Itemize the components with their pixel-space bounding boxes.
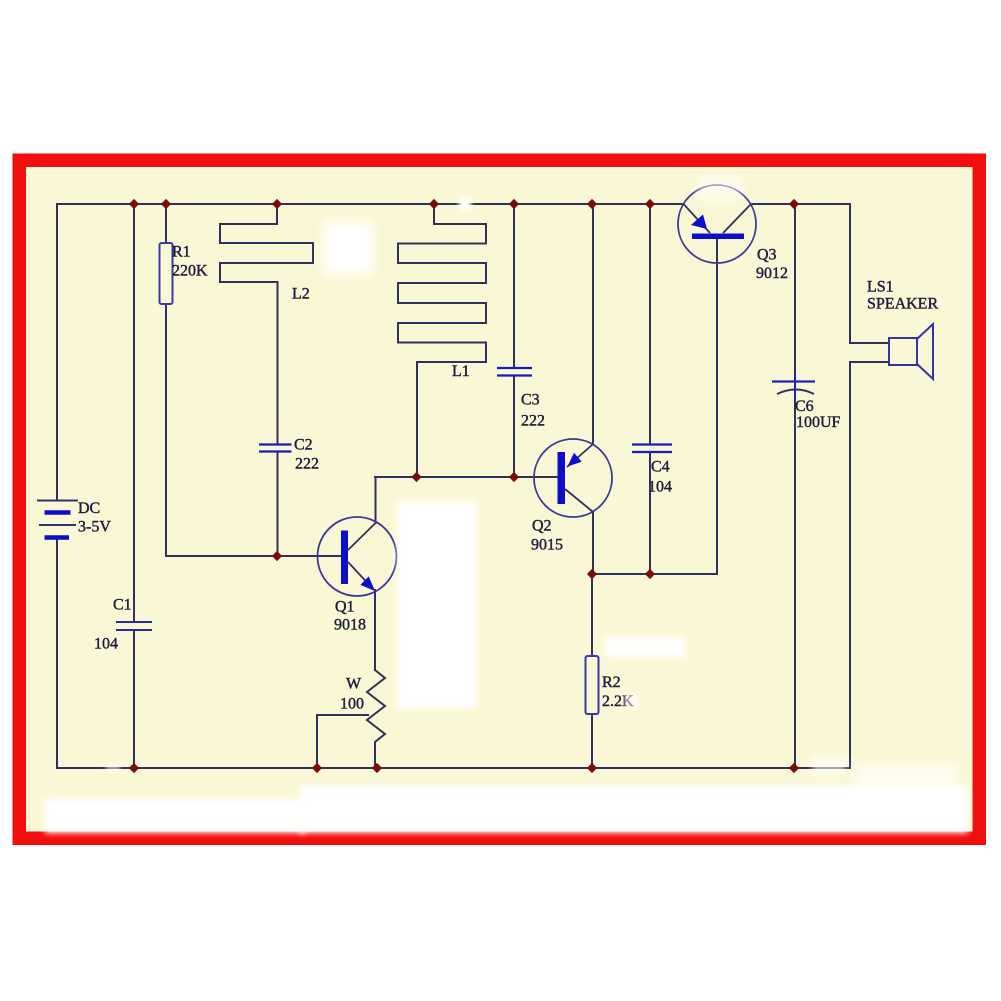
junction top rail Q2 emitter bbox=[587, 199, 597, 209]
svg-text:R1: R1 bbox=[172, 244, 191, 261]
wire C4 top lead bbox=[649, 204, 651, 444]
capacitor C6 bbox=[772, 372, 815, 400]
wire Q2 collector lead bbox=[592, 512, 594, 575]
wire Q1 emitter lead bbox=[374, 590, 376, 670]
junction bottom rail R2 bbox=[587, 763, 597, 773]
capacitor C1 bbox=[116, 622, 152, 630]
junction top rail C4 bbox=[645, 199, 655, 209]
junction top rail L2 bbox=[272, 199, 282, 209]
wire battery negative lead bbox=[56, 539, 58, 768]
wire V+ top rail right bbox=[751, 203, 851, 205]
svg-text:222: 222 bbox=[295, 456, 319, 473]
inductor L1 bbox=[398, 204, 486, 477]
junction Q1 base node bbox=[272, 551, 282, 561]
wire Q1 collector rail bbox=[375, 476, 558, 478]
svg-text:C3: C3 bbox=[521, 392, 540, 409]
svg-text:Q3: Q3 bbox=[757, 247, 777, 264]
wire ground bottom rail bbox=[57, 767, 850, 769]
junction collector rail L1 bbox=[411, 472, 421, 482]
junction top rail R1 bbox=[161, 199, 171, 209]
svg-text:222: 222 bbox=[521, 413, 545, 430]
svg-text:220K: 220K bbox=[172, 263, 208, 280]
transistor Q1 bbox=[318, 517, 397, 596]
junction top rail L1 bbox=[429, 199, 439, 209]
battery DC 3-5V bbox=[37, 501, 78, 538]
junction bottom rail C6 bbox=[789, 763, 799, 773]
junction top rail C3 bbox=[509, 199, 519, 209]
svg-text:LS1: LS1 bbox=[867, 279, 894, 296]
svg-text:Q1: Q1 bbox=[335, 599, 355, 616]
junction top rail C6 bbox=[789, 199, 799, 209]
potentiometer W zigzag bbox=[367, 670, 385, 768]
wire Q2 emitter lead bbox=[592, 204, 594, 445]
svg-text:104: 104 bbox=[94, 636, 118, 653]
wire C6 bottom lead bbox=[794, 396, 796, 768]
wire battery positive lead bbox=[56, 204, 58, 500]
wire C1 top lead bbox=[133, 204, 135, 622]
wire Q3 base lead bbox=[716, 239, 718, 574]
wire emitter node rail bbox=[592, 573, 717, 575]
wire C3 bottom lead bbox=[513, 376, 515, 477]
svg-text:100UF: 100UF bbox=[796, 414, 841, 431]
svg-text:100: 100 bbox=[340, 696, 364, 713]
wire W wiper bbox=[317, 715, 368, 768]
svg-text:9012: 9012 bbox=[756, 265, 788, 282]
junction emitter rail C4 bbox=[645, 569, 655, 579]
svg-text:R2: R2 bbox=[602, 674, 621, 691]
wire C4 bottom lead bbox=[649, 453, 651, 575]
junction collector rail C3 bbox=[509, 472, 519, 482]
junction emitter rail R2 bbox=[587, 569, 597, 579]
capacitor C3 bbox=[497, 368, 532, 376]
capacitor C4 bbox=[632, 445, 672, 453]
capacitor C2 bbox=[259, 445, 292, 452]
svg-text:W: W bbox=[346, 676, 362, 693]
svg-text:DC: DC bbox=[78, 500, 100, 517]
svg-text:C4: C4 bbox=[651, 459, 670, 476]
wire C2 to Q1 base node bbox=[277, 452, 279, 556]
svg-text:L1: L1 bbox=[452, 363, 470, 380]
svg-text:9015: 9015 bbox=[531, 537, 563, 554]
svg-text:SPEAKER: SPEAKER bbox=[867, 296, 938, 313]
wire C3 top lead bbox=[513, 204, 515, 368]
wire R2 top lead bbox=[591, 574, 593, 656]
svg-text:L2: L2 bbox=[292, 286, 310, 303]
inductor L2 bbox=[220, 204, 313, 444]
junction bottom rail W wiper bbox=[312, 763, 322, 773]
resistor R1 bbox=[160, 243, 173, 304]
transistor Q3 bbox=[678, 185, 756, 263]
wire speaker positive lead bbox=[850, 204, 889, 343]
junction top rail C1 bbox=[129, 199, 139, 209]
wire speaker negative lead bbox=[850, 362, 889, 768]
svg-text:104: 104 bbox=[648, 479, 672, 496]
svg-text:Q2: Q2 bbox=[532, 518, 552, 535]
svg-text:9018: 9018 bbox=[334, 617, 366, 634]
wire Q1 collector lead bbox=[375, 477, 377, 523]
junction bottom rail W bbox=[372, 763, 382, 773]
svg-text:C2: C2 bbox=[294, 437, 313, 454]
svg-text:C1: C1 bbox=[113, 597, 132, 614]
svg-text:C6: C6 bbox=[795, 398, 814, 415]
junction bottom rail C1 bbox=[129, 763, 139, 773]
transistor Q2 bbox=[534, 439, 612, 517]
wire R1 top lead bbox=[165, 204, 167, 243]
svg-text:3-5V: 3-5V bbox=[78, 519, 111, 536]
wire C1 bottom lead bbox=[133, 631, 135, 769]
wire C6 top lead bbox=[794, 204, 796, 381]
resistor R2 bbox=[586, 656, 599, 714]
wire V+ top rail left bbox=[57, 203, 684, 205]
speaker LS1 bbox=[889, 324, 933, 379]
wire R2 bottom lead bbox=[591, 714, 593, 768]
wire R1 bottom lead to Q1 base bbox=[166, 304, 341, 556]
